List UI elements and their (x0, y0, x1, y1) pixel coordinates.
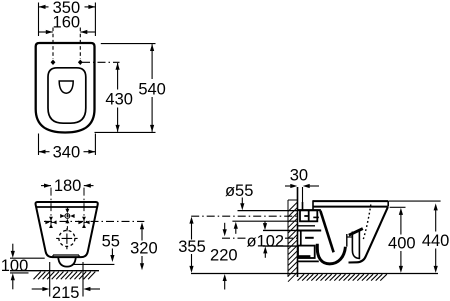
svg-text:430: 430 (105, 91, 133, 109)
svg-text:355: 355 (178, 238, 206, 256)
svg-text:55: 55 (102, 233, 120, 251)
svg-text:160: 160 (53, 14, 81, 32)
svg-text:100: 100 (1, 257, 29, 275)
svg-text:30: 30 (290, 166, 308, 184)
svg-text:215: 215 (52, 284, 80, 301)
svg-text:340: 340 (53, 144, 81, 162)
svg-text:180: 180 (54, 177, 82, 195)
svg-text:400: 400 (388, 235, 416, 253)
svg-text:220: 220 (210, 247, 238, 265)
svg-text:ø55: ø55 (225, 182, 253, 200)
svg-text:320: 320 (130, 240, 158, 258)
svg-text:440: 440 (422, 232, 450, 250)
svg-text:540: 540 (138, 80, 166, 98)
